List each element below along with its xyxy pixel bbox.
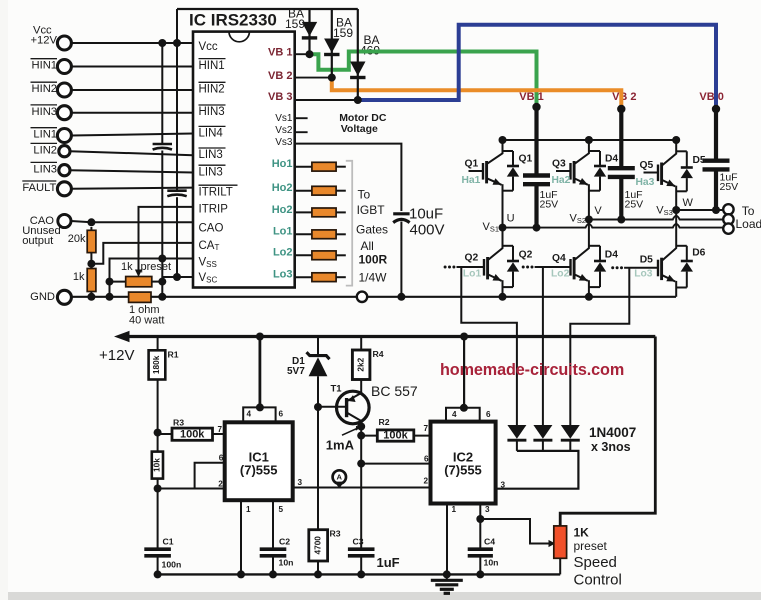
node cap2 to V row xyxy=(617,216,625,224)
gate lead continuation dots xyxy=(531,266,534,269)
svg-text:D5: D5 xyxy=(640,255,653,266)
resistor R3 100k xyxy=(158,433,172,435)
svg-text:GND: GND xyxy=(30,291,55,303)
wire T1 collector branch xyxy=(360,427,362,548)
wire input row LIN1 to IC xyxy=(71,134,193,136)
resistor 100R #6 gate resistor xyxy=(295,276,312,278)
svg-text:IGBT: IGBT xyxy=(357,203,386,217)
wire input row LIN3 to IC xyxy=(70,170,193,172)
svg-text:A: A xyxy=(337,473,343,482)
node IC1 supply / rail xyxy=(256,333,264,341)
svg-text:V: V xyxy=(594,205,602,217)
svg-text:VB 1: VB 1 xyxy=(519,91,543,103)
terminal circle GND xyxy=(57,290,71,304)
emitter drop xyxy=(502,280,504,297)
wire Q6 gate to 1N4007 #3 xyxy=(570,268,629,425)
terminal circle LIN1 xyxy=(57,129,71,143)
IGBT body bar xyxy=(573,161,576,183)
svg-text:To: To xyxy=(742,204,755,218)
svg-text:HIN1: HIN1 xyxy=(32,60,58,72)
resistor 10k xyxy=(152,452,163,479)
wire input row LIN2 to IC xyxy=(70,151,193,155)
wire IC1 supply to +12V rail xyxy=(258,337,261,408)
diode BA159 #1 xyxy=(308,9,310,54)
svg-text:R3: R3 xyxy=(330,529,341,539)
gate lead xyxy=(556,170,571,172)
capacitor 1uF 25V bootstrap #3 xyxy=(703,158,730,162)
wire collector xyxy=(575,220,589,260)
terminal circle FAULT xyxy=(57,182,71,196)
svg-text:3: 3 xyxy=(485,505,490,514)
node Q5 collector / rail end xyxy=(672,136,680,144)
svg-text:Q5: Q5 xyxy=(640,160,654,171)
node C3 / bottom rail xyxy=(357,570,365,578)
svg-text:C1: C1 xyxy=(163,536,174,546)
resistor 100R #5 gate resistor xyxy=(295,254,312,256)
resistor 20k xyxy=(90,227,92,231)
wire +12V rail xyxy=(119,335,655,338)
resistor 1k (lower left) xyxy=(87,269,96,292)
svg-text:1: 1 xyxy=(452,505,457,514)
IC1 555 timer xyxy=(225,422,293,500)
svg-text:LIN3: LIN3 xyxy=(199,149,223,161)
svg-text:Speed: Speed xyxy=(574,554,617,571)
svg-text:1K: 1K xyxy=(574,526,590,540)
svg-text:R4: R4 xyxy=(373,349,384,359)
node Vcc row branch 2 xyxy=(173,39,181,47)
node 10uF to GND row xyxy=(397,293,405,301)
wire CAO row xyxy=(71,221,193,222)
wire Vs3 to DC bus negative xyxy=(295,144,402,211)
svg-text:HIN1: HIN1 xyxy=(199,60,225,72)
node Q3 collector / rail xyxy=(585,136,593,144)
freewheel diode bracket bottom xyxy=(503,190,514,192)
wire IC2 pin1 to bottom rail xyxy=(446,504,448,575)
svg-text:D6: D6 xyxy=(692,247,705,258)
wire 20k to 1k junction xyxy=(90,253,92,269)
wire VB2 pin row xyxy=(295,77,333,79)
svg-text:All: All xyxy=(361,239,374,253)
terminal circle HIN2 xyxy=(57,83,71,97)
svg-text:1k: 1k xyxy=(121,261,133,273)
svg-text:Q2: Q2 xyxy=(519,250,533,261)
wire VB3 bus vertical xyxy=(714,109,718,159)
wire Q4 gate to 1N4007 #2 xyxy=(542,267,544,425)
ground symbol xyxy=(446,574,448,579)
node Vs2 / V xyxy=(585,216,593,224)
svg-text:HIN2: HIN2 xyxy=(199,84,225,96)
node R2 tap xyxy=(357,432,365,440)
svg-text:1/4W: 1/4W xyxy=(359,271,388,285)
node 20k/1k junction xyxy=(87,260,95,268)
node Vs3 / W xyxy=(672,206,680,214)
capacitor C4 10n xyxy=(479,519,481,548)
svg-text:Ha1: Ha1 xyxy=(462,175,481,186)
wire input row HIN1 to IC xyxy=(71,66,193,68)
wire phase U row to load xyxy=(503,224,724,228)
svg-text:LIN3: LIN3 xyxy=(199,166,223,178)
svg-text:40 watt: 40 watt xyxy=(129,315,164,327)
svg-text:7: 7 xyxy=(218,425,223,434)
svg-text:Vs3: Vs3 xyxy=(275,137,293,148)
capacitor 1uF 25V bootstrap #1 xyxy=(523,173,550,177)
terminal circle LIN3 xyxy=(59,165,70,176)
wire IC2 pin6 row xyxy=(361,463,430,465)
wire Vs2 stub xyxy=(295,131,308,133)
svg-text:R1: R1 xyxy=(168,350,179,360)
svg-text:R3: R3 xyxy=(173,418,184,428)
svg-text:output: output xyxy=(22,235,54,247)
IGBT gate bar xyxy=(657,165,659,182)
svg-text:LIN3: LIN3 xyxy=(33,163,57,175)
emitter drop xyxy=(588,280,590,297)
node VB0 bus top xyxy=(712,105,720,113)
terminals To Load xyxy=(723,204,733,214)
svg-text:Motor DC: Motor DC xyxy=(339,112,387,124)
svg-text:1N4007: 1N4007 xyxy=(589,425,636,440)
node VB1 bus top xyxy=(532,103,540,111)
node VB2 bus top xyxy=(617,105,625,113)
svg-text:Vs2: Vs2 xyxy=(275,125,293,136)
emitter with arrow xyxy=(575,275,588,281)
node pin3 branch xyxy=(476,515,484,523)
freewheel diode xyxy=(512,151,514,166)
node T1 collector xyxy=(357,423,365,431)
svg-text:T1: T1 xyxy=(331,384,343,395)
node cap3 to W row xyxy=(712,206,720,214)
node R3 / bottom rail xyxy=(314,570,322,578)
IGBT body bar xyxy=(486,257,489,279)
IC2 555 timer xyxy=(431,422,496,504)
svg-text:C2: C2 xyxy=(279,536,290,546)
gate lead xyxy=(535,266,571,268)
node Vss row / Vcc branch xyxy=(158,255,166,263)
svg-text:Q1: Q1 xyxy=(465,158,479,169)
wire VB1 bus vertical xyxy=(534,107,538,174)
svg-text:C3: C3 xyxy=(353,536,364,546)
terminal circle HIN1 xyxy=(57,60,71,74)
capacitor C3 1uF xyxy=(348,547,375,551)
outer box left edge wire with decoupling cap xyxy=(176,9,178,191)
svg-text:Q2: Q2 xyxy=(465,253,479,264)
arrowhead +12V rail xyxy=(114,331,130,342)
terminal circle LIN2 xyxy=(59,146,70,157)
freewheel diode bracket bottom xyxy=(503,286,514,288)
freewheel diode bracket top xyxy=(676,245,687,247)
svg-text:HIN2: HIN2 xyxy=(32,83,58,95)
diode 1N4007 #2 xyxy=(533,425,552,439)
svg-text:HIN3: HIN3 xyxy=(199,106,225,118)
svg-text:4700: 4700 xyxy=(312,536,322,555)
node C2 / bottom rail xyxy=(269,570,277,578)
svg-text:(7)555: (7)555 xyxy=(444,463,482,478)
bracket grouping gate resistors xyxy=(346,161,352,286)
node IC2 pin1 / bottom rail xyxy=(443,570,451,578)
resistor 100R #2 gate resistor xyxy=(295,190,312,192)
svg-text:D4: D4 xyxy=(605,154,618,165)
wire blue VB3 bootstrap link xyxy=(358,25,716,109)
node 1k to GND rail xyxy=(87,293,95,301)
node IC2 4/6 xyxy=(460,404,468,412)
svg-text:Gates: Gates xyxy=(356,223,388,237)
wire VB2 bus vertical xyxy=(619,109,623,167)
svg-text:HIN3: HIN3 xyxy=(32,106,58,118)
IC IRS2330 body xyxy=(193,32,295,288)
svg-text:Voltage: Voltage xyxy=(341,123,378,135)
node Q4 emitter / GND row xyxy=(585,293,593,301)
svg-text:100k: 100k xyxy=(180,428,205,440)
wire IC2 supply to +12V rail xyxy=(463,337,465,408)
wire input row HIN3 to IC xyxy=(71,112,193,114)
scan border band bottom xyxy=(0,592,761,600)
wire Vss pin row xyxy=(110,259,194,297)
gate lead continuation dots xyxy=(452,266,455,269)
freewheel diode bracket bottom xyxy=(589,286,600,288)
meter A (balloon symbol) xyxy=(333,470,346,483)
IC notch xyxy=(229,32,249,42)
svg-text:D5: D5 xyxy=(693,155,706,166)
node preset-left / GND rail xyxy=(106,293,114,301)
diode BA469 on outer box right edge xyxy=(357,9,359,100)
freewheel diode xyxy=(599,151,601,166)
freewheel diode bracket bottom xyxy=(676,190,687,192)
svg-text:2: 2 xyxy=(424,477,429,486)
svg-text:1uF: 1uF xyxy=(377,555,400,570)
svg-text:+12V: +12V xyxy=(99,347,134,364)
resistor 100R #4 gate resistor xyxy=(295,233,312,235)
freewheel diode xyxy=(686,151,688,167)
wire IC1 pin6/pin2 loop xyxy=(195,463,225,489)
wiper arrow to 1K preset xyxy=(549,540,556,547)
wire Vcc branch with decoupling cap (x=162) xyxy=(161,43,163,144)
svg-text:Lo2: Lo2 xyxy=(551,268,570,279)
svg-text:Lo3: Lo3 xyxy=(273,269,293,281)
wire IC1 pin5 to C2 xyxy=(272,500,274,547)
svg-text:100R: 100R xyxy=(359,253,388,267)
wire GND row (right) xyxy=(367,296,676,298)
node cap1 to U row xyxy=(533,224,541,232)
svg-text:VB 0: VB 0 xyxy=(699,91,723,103)
svg-text:VB 1: VB 1 xyxy=(268,47,292,59)
gate lead xyxy=(469,170,484,172)
svg-text:1k: 1k xyxy=(73,271,85,283)
wire input row HIN2 to IC xyxy=(71,89,193,91)
gate lead xyxy=(644,172,659,174)
svg-text:Ha3: Ha3 xyxy=(636,177,655,188)
svg-text:FAULT: FAULT xyxy=(22,182,56,194)
wire IC1 pin1 to bottom rail xyxy=(240,500,242,574)
resistor R3 4700 xyxy=(309,530,328,561)
emitter with arrow xyxy=(662,275,675,281)
emitter with arrow xyxy=(487,179,501,185)
node IC1 4/6 xyxy=(256,403,264,411)
wire IC2 pin3 bottom to preset wiper and C4 xyxy=(479,504,481,520)
freewheel diode bracket top xyxy=(503,245,514,247)
svg-text:10k: 10k xyxy=(151,458,161,472)
wire collector xyxy=(488,228,502,260)
gate lead xyxy=(457,266,485,268)
svg-text:IC IRS2330: IC IRS2330 xyxy=(189,10,277,29)
svg-text:preset: preset xyxy=(574,539,608,553)
capacitor C1 100n xyxy=(144,547,171,551)
svg-text:6: 6 xyxy=(424,454,429,463)
IGBT body bar xyxy=(660,163,663,185)
svg-text:ITRIP: ITRIP xyxy=(199,204,229,216)
svg-text:preset: preset xyxy=(141,261,172,273)
IGBT gate bar xyxy=(483,259,485,276)
wire IC1 pins 4/6 supply bracket xyxy=(243,407,275,422)
svg-text:Q4: Q4 xyxy=(552,253,566,264)
wire 1N4007 cathode bus to IC2 pin3 xyxy=(496,451,579,489)
wiper arrow on 1k preset xyxy=(135,270,142,278)
svg-text:Ho1: Ho1 xyxy=(272,158,293,170)
svg-text:VB 3: VB 3 xyxy=(268,91,292,103)
svg-text:Lo3: Lo3 xyxy=(634,269,653,280)
diode 1N4007 #3 xyxy=(561,425,580,439)
freewheel diode bracket top xyxy=(589,150,600,152)
T1 emitter xyxy=(348,393,362,401)
gate lead continuation dots xyxy=(620,266,623,269)
svg-text:Vs1: Vs1 xyxy=(275,113,293,124)
node IC2 supply / rail xyxy=(460,333,468,341)
capacitor 10uF 400V xyxy=(393,212,409,215)
potentiometer 1k preset (ITRIP) xyxy=(110,281,126,283)
svg-text:100n: 100n xyxy=(162,559,182,569)
svg-text:W: W xyxy=(683,197,694,209)
resistor R2 100k xyxy=(361,435,377,437)
svg-text:5: 5 xyxy=(279,505,284,514)
svg-text:LIN4: LIN4 xyxy=(199,128,224,140)
svg-text:1: 1 xyxy=(246,505,251,514)
freewheel diode xyxy=(512,246,514,261)
IGBT body bar xyxy=(573,257,576,279)
svg-text:(7)555: (7)555 xyxy=(240,463,278,478)
emitter with arrow xyxy=(575,179,588,185)
node Q2 emitter / GND row xyxy=(499,293,507,301)
svg-text:BC 557: BC 557 xyxy=(371,383,418,399)
svg-text:x 3nos: x 3nos xyxy=(591,440,631,454)
emitter with arrow xyxy=(662,180,675,186)
svg-text:6: 6 xyxy=(279,409,284,418)
potentiometer 1K preset speed control xyxy=(554,526,567,558)
node CAO / 20k top xyxy=(87,218,95,226)
wire input row Vcc to IC xyxy=(71,42,193,44)
emitter drop xyxy=(588,184,590,219)
capacitor C2 10n xyxy=(260,547,287,551)
capacitor 1uF 25V bootstrap #2 xyxy=(608,166,635,170)
resistor 100R #1 gate resistor xyxy=(295,166,312,168)
svg-text:U: U xyxy=(507,213,515,225)
wire junction to CAT pin xyxy=(91,243,193,264)
terminal circle CAO xyxy=(58,214,71,227)
svg-text:4: 4 xyxy=(247,409,252,418)
wire IC1 pin3 to IC2 pin2 xyxy=(293,487,431,489)
wire collector xyxy=(487,140,502,164)
wire phase V row to load xyxy=(589,216,724,220)
resistor R4 2k2 xyxy=(360,337,362,351)
svg-text:25V: 25V xyxy=(540,198,559,210)
svg-text:VB 2: VB 2 xyxy=(612,91,636,103)
wire collector xyxy=(662,140,676,165)
svg-text:LIN2: LIN2 xyxy=(33,144,57,156)
node C1 / bottom rail xyxy=(154,570,162,578)
node 10k bottom / pin2 row xyxy=(154,485,162,493)
freewheel diode bracket top xyxy=(676,150,687,152)
node VB2 / BA159#2 cathode xyxy=(328,74,336,82)
wire IC2 pins 4/6 supply bracket xyxy=(446,408,480,422)
freewheel diode bracket top xyxy=(503,150,514,152)
current arrow 1mA xyxy=(342,428,358,435)
svg-text:D4: D4 xyxy=(605,250,618,261)
diode BA159 #2 xyxy=(331,9,333,78)
node zener / T1 base xyxy=(314,403,322,411)
emitter drop xyxy=(675,281,677,297)
wire green VB1 bootstrap link xyxy=(310,52,537,108)
svg-text:Ha2: Ha2 xyxy=(552,175,571,186)
svg-text:Vcc: Vcc xyxy=(199,41,218,53)
wire input row FAULT to IC xyxy=(71,188,193,189)
wire orange VB2 bootstrap link xyxy=(332,78,622,108)
svg-text:10n: 10n xyxy=(279,557,294,567)
diode D1 zener 5V7 xyxy=(317,337,319,356)
emitter with arrow xyxy=(488,275,501,281)
wire ITRIP to preset wiper xyxy=(139,207,194,272)
svg-text:10n: 10n xyxy=(484,558,499,568)
node IC1 pin1 / bottom rail xyxy=(237,570,245,578)
svg-text:10uF: 10uF xyxy=(409,205,443,222)
wire VB1 pin row xyxy=(295,53,311,55)
meter pointer xyxy=(334,482,344,489)
node GND row / Vcc branch bottom xyxy=(158,293,166,301)
freewheel diode xyxy=(599,246,601,261)
node preset right / Vcc branch xyxy=(158,278,166,286)
node Vs1 / U xyxy=(499,224,507,232)
wire GND row (middle) xyxy=(151,296,357,298)
terminal circle Vcc xyxy=(57,36,71,50)
svg-text:20k: 20k xyxy=(68,233,86,245)
svg-text:Ho2: Ho2 xyxy=(272,182,293,194)
capacitor Vcc decoupling (left) xyxy=(153,143,172,146)
svg-text:Lo2: Lo2 xyxy=(273,247,293,259)
wire phase W row to load xyxy=(676,209,723,211)
wire GND row (left) xyxy=(71,296,128,298)
resistor 1 ohm 40 watt xyxy=(129,292,151,302)
freewheel diode bracket top xyxy=(589,245,600,247)
svg-text:3: 3 xyxy=(298,478,303,487)
svg-text:159: 159 xyxy=(333,26,353,40)
svg-text:7: 7 xyxy=(424,424,429,433)
IC IRS2330 outer box top edge / bootstrap bus xyxy=(177,8,358,10)
wire pin2 row to timing node xyxy=(158,488,195,490)
svg-text:159: 159 xyxy=(285,17,305,31)
svg-text:6: 6 xyxy=(486,410,491,419)
wire collector xyxy=(575,140,589,164)
node R1/10k/R3 junction xyxy=(154,429,162,437)
svg-text:25V: 25V xyxy=(720,181,739,193)
capacitor Vcc decoupling (right) xyxy=(167,189,186,192)
terminal GND bus connector xyxy=(357,292,367,302)
IGBT gate bar xyxy=(569,163,571,180)
freewheel diode bracket bottom xyxy=(676,287,687,289)
gate lead xyxy=(624,267,658,269)
svg-text:LIN1: LIN1 xyxy=(33,129,57,141)
node VB3 / BA469 cathode xyxy=(354,96,362,104)
svg-text:180k: 180k xyxy=(151,355,161,374)
IGBT gate bar xyxy=(657,260,659,277)
freewheel diode bracket bottom xyxy=(589,190,600,192)
wire collector xyxy=(662,210,676,260)
svg-text:+12V: +12V xyxy=(31,35,58,47)
